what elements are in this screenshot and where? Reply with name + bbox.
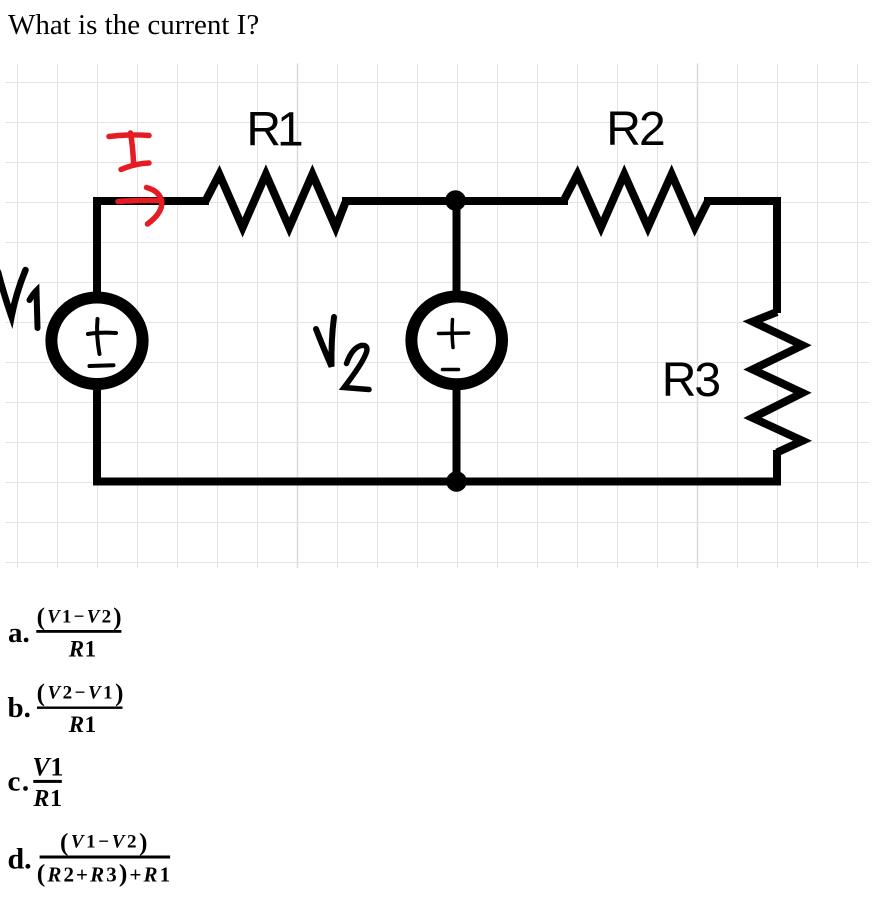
svg-text:b.: b. — [8, 692, 31, 724]
svg-text:a.: a. — [8, 617, 30, 649]
svg-text:R1: R1 — [246, 103, 302, 156]
svg-text:c.: c. — [8, 765, 31, 797]
svg-text:R1: R1 — [68, 712, 97, 737]
svg-text:R1: R1 — [68, 636, 97, 661]
svg-text:R2: R2 — [606, 103, 664, 156]
svg-text:(V1−V2): (V1−V2) — [60, 829, 150, 856]
svg-text:R1: R1 — [32, 786, 62, 812]
svg-text:d.: d. — [8, 843, 32, 876]
svg-text:What is the current I?: What is the current I? — [8, 9, 259, 41]
svg-text:(R2+R3)+R1: (R2+R3)+R1 — [37, 858, 172, 887]
svg-text:(V1−V2): (V1−V2) — [37, 604, 124, 631]
svg-text:(V2−V1): (V2−V1) — [37, 680, 126, 707]
svg-text:V1: V1 — [32, 752, 64, 781]
svg-text:R3: R3 — [662, 354, 720, 407]
